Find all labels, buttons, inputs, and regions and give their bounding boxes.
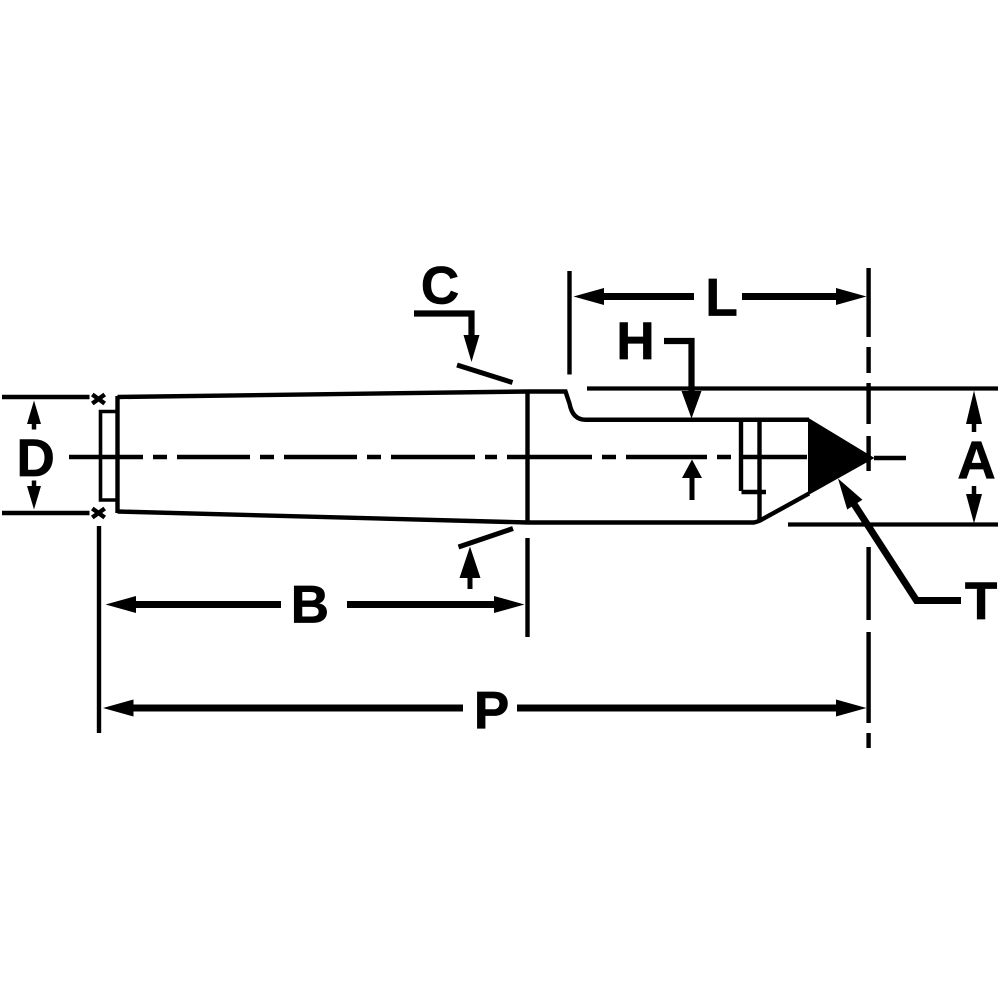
tang xyxy=(101,412,118,501)
T arrowhead xyxy=(838,479,862,510)
T leader xyxy=(854,504,961,601)
svg-text:T: T xyxy=(965,572,997,631)
cylinder bottom and cone lower edge xyxy=(528,494,810,523)
B dimension line xyxy=(106,596,137,613)
svg-text:D: D xyxy=(17,429,55,488)
body joint line xyxy=(525,392,529,524)
collar line 1 xyxy=(739,421,743,491)
svg-text:H: H xyxy=(616,312,654,371)
taper bottom line xyxy=(118,512,528,523)
P dimension line xyxy=(103,700,134,717)
x mark bottom xyxy=(92,509,104,518)
H up arrow xyxy=(682,460,702,479)
C leader xyxy=(414,314,472,337)
H leader xyxy=(664,341,692,392)
centerline xyxy=(69,455,807,459)
taper top line xyxy=(118,392,528,398)
C lower arrow xyxy=(460,547,481,579)
D down arrow xyxy=(27,486,41,510)
svg-text:P: P xyxy=(474,682,509,741)
top extension line xyxy=(587,386,998,390)
A up arrow xyxy=(966,391,982,425)
body left face xyxy=(115,396,119,513)
x mark top xyxy=(92,395,104,404)
svg-text:A: A xyxy=(957,431,995,490)
C tick upper xyxy=(457,365,513,383)
L right extension dashed xyxy=(866,268,870,748)
svg-text:B: B xyxy=(291,576,329,635)
H down arrowhead xyxy=(682,391,702,419)
D dim bottom line xyxy=(2,511,90,516)
collar line 2 xyxy=(757,420,761,520)
svg-text:C: C xyxy=(421,256,459,315)
cylinder top and step fillet and flat top xyxy=(528,392,810,420)
bottom extension line xyxy=(788,522,998,526)
centerline tip segment xyxy=(874,456,906,460)
A down arrow xyxy=(966,494,982,524)
D dim top line xyxy=(2,395,90,400)
D up arrow xyxy=(27,401,41,425)
L dimension line xyxy=(574,288,605,305)
C tick lower xyxy=(459,529,514,548)
B right extension xyxy=(525,538,529,637)
C arrowhead xyxy=(464,335,480,362)
L left extension xyxy=(567,271,571,375)
left extension line below xyxy=(97,526,101,733)
collar bottom edge xyxy=(742,490,767,494)
carbide tip cone xyxy=(809,420,873,494)
svg-text:L: L xyxy=(705,269,737,328)
